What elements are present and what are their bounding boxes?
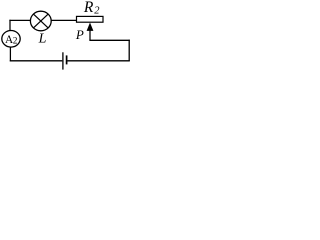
- wire top-left horizontal: [9, 19, 30, 21]
- lamp L symbol: [30, 11, 51, 31]
- wire ammeter to bottom rail: [9, 47, 11, 61]
- svg-text:2: 2: [13, 36, 18, 46]
- svg-text:R: R: [83, 0, 94, 16]
- ammeter A2: [2, 31, 20, 48]
- bottom rail right segment: [67, 60, 129, 62]
- wiper arrow of rheostat: [87, 23, 94, 41]
- battery cell: [63, 52, 67, 69]
- wire left vertical upper: [9, 20, 11, 31]
- svg-text:P: P: [75, 27, 84, 42]
- svg-text:2: 2: [94, 6, 100, 17]
- wire wiper horizontal: [89, 39, 129, 41]
- wire right vertical: [128, 40, 130, 61]
- svg-text:L: L: [38, 32, 47, 47]
- rheostat R2 body: [77, 16, 104, 22]
- wire lamp to rheostat: [51, 19, 76, 21]
- bottom rail left segment: [10, 60, 63, 62]
